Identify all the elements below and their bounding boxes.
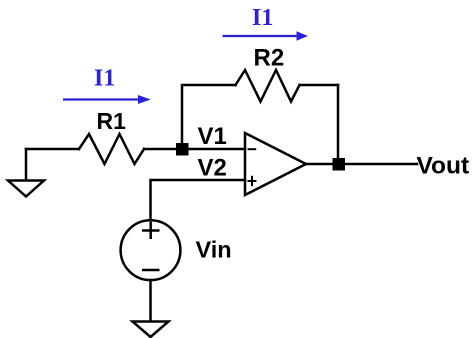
svg-text:Vout: Vout (417, 153, 470, 180)
svg-text:R1: R1 (97, 108, 127, 134)
svg-text:I1: I1 (94, 66, 115, 92)
svg-text:Vin: Vin (196, 237, 232, 263)
svg-text:R2: R2 (254, 45, 285, 72)
svg-text:I1: I1 (252, 5, 273, 31)
svg-text:V2: V2 (198, 155, 227, 182)
svg-text:V1: V1 (198, 123, 227, 150)
